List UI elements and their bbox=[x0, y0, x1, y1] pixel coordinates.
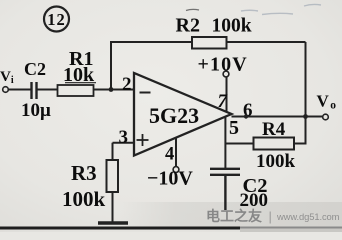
svg-text:www.dg51.com: www.dg51.com bbox=[276, 211, 340, 222]
resistor R2 100k bbox=[176, 15, 252, 49]
wire top rail left bbox=[110, 41, 192, 43]
svg-text:3: 3 bbox=[119, 127, 129, 148]
ground bbox=[98, 221, 128, 225]
node junction pin6 bbox=[244, 114, 248, 118]
pin 5 vertical wire bbox=[224, 117, 226, 169]
svg-text:5G23: 5G23 bbox=[149, 103, 199, 128]
svg-text:12: 12 bbox=[47, 10, 66, 29]
wire output to Vo bbox=[232, 116, 323, 118]
op-amp U1 5G23 triangle bbox=[134, 73, 232, 156]
wire R4 right up to output bbox=[294, 117, 306, 144]
node junction at R1/R2/pin2 bbox=[109, 87, 114, 92]
node junction output/R2/R4 bbox=[303, 114, 308, 119]
pin 7 wire bbox=[226, 77, 228, 112]
svg-text:100k: 100k bbox=[62, 187, 106, 211]
wire C2 to R1 bbox=[37, 89, 58, 91]
svg-text:R2: R2 bbox=[176, 15, 200, 37]
svg-text:R3: R3 bbox=[71, 161, 97, 185]
svg-text:2: 2 bbox=[122, 74, 132, 95]
resistor R3 100k bbox=[62, 143, 118, 222]
node Vi input terminal bbox=[0, 69, 14, 92]
svg-text:+10V: +10V bbox=[198, 54, 248, 76]
wire feedback left vertical bbox=[110, 42, 112, 90]
wire feedback right vertical bbox=[305, 42, 307, 117]
svg-text:100k: 100k bbox=[212, 16, 252, 37]
svg-text:电工之友: 电工之友 bbox=[206, 208, 262, 224]
svg-text:4: 4 bbox=[165, 145, 174, 165]
wire R4 left bbox=[225, 143, 253, 145]
power +10V terminal bbox=[198, 54, 248, 77]
svg-text:R4: R4 bbox=[262, 119, 286, 140]
resistor R4 100k bbox=[254, 119, 296, 172]
svg-text:−10V: −10V bbox=[147, 168, 193, 190]
watermark band bbox=[206, 208, 340, 224]
svg-text:5: 5 bbox=[229, 117, 239, 139]
scan artifact marks top right bbox=[186, 9, 199, 10]
capacitor C2 output 200 bbox=[210, 169, 268, 211]
svg-text:|: | bbox=[269, 209, 272, 224]
bottom frame line bbox=[0, 227, 240, 230]
resistor R1 10k bbox=[58, 48, 97, 96]
wire top rail right bbox=[227, 41, 306, 43]
svg-text:100k: 100k bbox=[256, 151, 296, 172]
wire R1 to op-amp pin 2 bbox=[94, 89, 135, 91]
node Vo output terminal bbox=[317, 92, 337, 120]
svg-text:C2: C2 bbox=[24, 59, 46, 79]
svg-text:7: 7 bbox=[218, 91, 229, 112]
pin 4 wire bbox=[175, 138, 177, 167]
svg-text:10μ: 10μ bbox=[21, 100, 51, 121]
power -10V terminal bbox=[147, 167, 193, 190]
capacitor C2 input 10u bbox=[21, 59, 51, 121]
figure number 12 bbox=[44, 7, 69, 32]
wire Vi to C2 bbox=[8, 89, 31, 91]
pin 3 wire bbox=[113, 142, 135, 144]
